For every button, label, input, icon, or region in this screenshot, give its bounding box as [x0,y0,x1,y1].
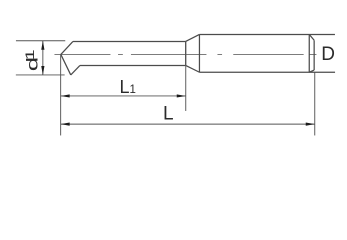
L right extension line [314,72,316,135]
shank end face [313,40,315,70]
L1 right extension line [185,41,187,111]
bar end vertical [185,41,187,65]
svg-text:L1: L1 [120,77,136,97]
L arrow left [61,123,70,126]
L1 dimension line [61,95,186,97]
shank top edge + D top extension [199,33,335,35]
bar top edge [73,40,186,42]
L left extension line (from tip) [60,54,62,135]
shank chamfer vertical [308,34,310,72]
taper bottom [186,65,200,72]
shank end bottom chamfer [309,70,314,72]
d1 arrow up [41,41,44,50]
L1 arrow left [61,94,70,97]
d1 dimension line [42,41,44,75]
taper top [186,34,200,41]
d1 bottom extension line [16,74,65,76]
head V rising edge [71,65,80,75]
svg-text:L: L [163,104,174,125]
L arrow right [306,123,315,126]
svg-text:d1: d1 [23,50,41,72]
shank start vertical [198,34,200,72]
L dimension line [61,123,315,125]
centerline [54,53,316,55]
d1 arrow down [41,66,44,75]
bar bottom edge [80,64,186,66]
shank bottom edge + D bottom extension [199,71,335,73]
head upper chamfer [61,41,73,54]
d1 top extension line [16,40,65,42]
svg-text:D: D [321,44,335,65]
tool body outline [61,34,335,74]
head lower tip edge [61,54,71,74]
shank end top chamfer [309,34,314,40]
L1 arrow right [177,94,186,97]
